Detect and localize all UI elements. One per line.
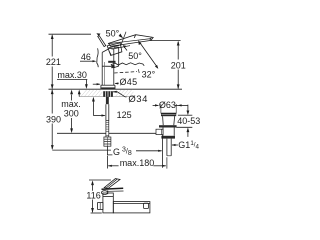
spout mouth dark <box>111 65 115 69</box>
deck top line <box>49 88 183 90</box>
mounting nut <box>103 91 113 97</box>
svg-text:32°: 32° <box>142 70 156 80</box>
svg-text:max.180: max.180 <box>120 158 155 168</box>
dim 221 extension top <box>49 33 92 35</box>
svg-text:G 3/8: G 3/8 <box>113 147 132 158</box>
dim 201 <box>151 40 181 42</box>
locknut <box>161 136 175 139</box>
svg-text:390: 390 <box>46 114 61 124</box>
lever base <box>107 43 122 56</box>
side knob <box>98 203 103 210</box>
tailpipe <box>166 139 168 156</box>
svg-text:max.30: max.30 <box>57 70 87 80</box>
svg-text:50°: 50° <box>128 51 142 61</box>
dim 40-53 <box>187 105 189 112</box>
G1 1/4 leader <box>172 144 178 146</box>
50deg no1 arrows <box>96 33 100 36</box>
spout block right <box>114 46 119 48</box>
side outlet <box>156 129 163 134</box>
dim 116 <box>89 179 111 181</box>
dim max180 <box>108 165 118 167</box>
svg-text:Ø45: Ø45 <box>120 77 138 87</box>
svg-text:Ø34: Ø34 <box>128 94 147 105</box>
threaded stud <box>106 97 109 104</box>
svg-text:125: 125 <box>117 110 132 120</box>
drain flange <box>161 113 176 116</box>
svg-text:300: 300 <box>64 108 79 118</box>
dim 221 line <box>51 35 53 56</box>
dash-dot phantom lever <box>114 72 137 73</box>
svg-text:50°: 50° <box>106 29 120 39</box>
hose end nuts <box>104 137 111 146</box>
side lever <box>104 179 120 189</box>
svg-text:46: 46 <box>81 52 91 62</box>
dim dia45 <box>93 83 100 85</box>
dim dia63 <box>153 104 159 106</box>
max300 extension / pull rod line to drain <box>57 132 156 134</box>
G3/8 leader <box>107 147 112 155</box>
ext below stud <box>107 156 109 169</box>
side spout <box>113 202 150 213</box>
dim max30 underline and arrow <box>57 79 87 81</box>
dim 46 underline <box>80 60 93 62</box>
drain lower body <box>163 128 174 136</box>
solid lever <box>108 35 153 47</box>
washer <box>159 125 177 127</box>
side body <box>103 193 113 213</box>
rod pointer arrow <box>136 150 162 152</box>
svg-text:116: 116 <box>86 190 100 200</box>
deck hatching <box>81 89 134 96</box>
body <box>101 52 103 85</box>
390 extension bottom <box>52 149 111 151</box>
svg-text:Ø63: Ø63 <box>159 100 176 110</box>
phantom raised lever <box>98 36 106 47</box>
wavy phantom lever open <box>111 63 143 65</box>
drain upper body <box>163 116 175 125</box>
flange <box>101 84 115 86</box>
50deg no2 leader and arrow <box>124 47 127 51</box>
dim 390 line <box>51 90 53 114</box>
pull rod <box>162 135 164 168</box>
svg-text:G11/4: G11/4 <box>178 140 199 150</box>
arc to phantom open lever <box>139 42 158 68</box>
deck bottom line <box>79 96 134 98</box>
svg-text:201: 201 <box>171 61 186 71</box>
squiggle curve (lever swept profile) <box>97 48 98 67</box>
svg-text:40-53: 40-53 <box>177 116 200 126</box>
dim 125 <box>92 99 94 116</box>
dim max300 line <box>71 95 73 101</box>
dim dia34 leader <box>113 92 127 97</box>
side lever neck <box>101 191 107 195</box>
svg-text:221: 221 <box>46 57 61 67</box>
